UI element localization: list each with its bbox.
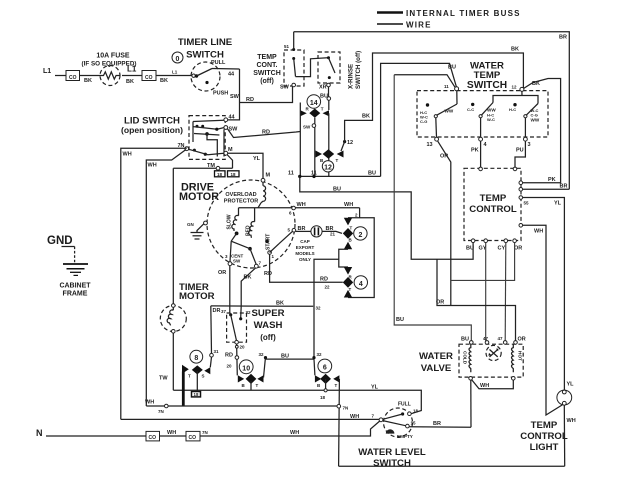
- contact 8 right triangle: [204, 367, 210, 374]
- terminal 37: [229, 313, 232, 316]
- wire BU long vertical to valve: [394, 75, 471, 342]
- contact 12 left triangle: [316, 151, 323, 158]
- svg-text:RD: RD: [225, 353, 233, 359]
- temp control light bulb: [557, 390, 572, 405]
- svg-text:WH: WH: [350, 414, 359, 420]
- switch arm: [292, 57, 295, 60]
- contact 8 left triangle: [182, 365, 189, 374]
- wire L1: [55, 75, 66, 77]
- timer contact 4: [354, 276, 367, 289]
- svg-text:7N: 7N: [202, 430, 208, 435]
- terminals 47 47: [485, 341, 489, 345]
- svg-text:3: 3: [528, 142, 531, 148]
- svg-text:L1: L1: [43, 68, 51, 75]
- terminal SW of lid: [224, 126, 228, 130]
- TIMERLINESW: [172, 37, 293, 120]
- svg-text:OR: OR: [436, 300, 444, 306]
- wire PK: [480, 141, 482, 168]
- svg-text:47: 47: [483, 336, 489, 341]
- wire BU lower bus: [300, 176, 473, 259]
- lid switch arm 1: [196, 125, 199, 128]
- svg-text:PROTECTOR: PROTECTOR: [224, 199, 258, 205]
- water temp switch box: [417, 91, 548, 137]
- svg-text:WASH: WASH: [254, 320, 283, 331]
- MOTOR: [179, 129, 360, 268]
- super wash arm: [231, 315, 237, 341]
- svg-text:FRAME: FRAME: [63, 291, 88, 298]
- wire to x-rinse: [296, 58, 328, 77]
- lid switch arm 2: [193, 149, 196, 152]
- terminal 12: [520, 87, 524, 91]
- start switch: [265, 239, 269, 243]
- svg-text:T: T: [256, 383, 259, 388]
- svg-text:XR: XR: [319, 85, 327, 91]
- svg-text:WH: WH: [145, 399, 154, 405]
- svg-text:BU: BU: [281, 354, 289, 360]
- wire OR from terminal 3: [229, 266, 231, 313]
- svg-text:BU: BU: [461, 337, 469, 343]
- wire arm2 jumper: [493, 96, 538, 104]
- contact 12 diamond: [323, 149, 335, 158]
- svg-text:OR: OR: [518, 337, 526, 343]
- wire 44 vertical: [228, 69, 240, 120]
- contact 10 right triangle: [257, 375, 263, 382]
- legend line INTERNAL TIMER BUSS: [377, 11, 403, 14]
- svg-text:SUPER: SUPER: [251, 308, 284, 319]
- svg-text:OR: OR: [514, 246, 522, 252]
- contact 2 diamond: [343, 228, 353, 239]
- SUPERWASH: [211, 266, 321, 376]
- cabinet ground symbol: [63, 263, 88, 265]
- x-rinse switch box: [318, 52, 340, 83]
- wire TM feed down: [172, 168, 174, 304]
- terminal 11: [455, 87, 459, 91]
- L1FEED: [43, 53, 195, 86]
- svg-text:TIMER LINE: TIMER LINE: [178, 37, 233, 48]
- wire to 13: [435, 118, 438, 138]
- svg-text:T: T: [188, 374, 191, 379]
- svg-text:T: T: [336, 158, 339, 163]
- svg-text:BK: BK: [244, 275, 252, 281]
- wire WH left from 7N: [121, 148, 187, 419]
- timer line switch body: [191, 62, 220, 91]
- svg-text:CABINET: CABINET: [59, 283, 91, 290]
- terminal 15 EMPTY: [406, 424, 410, 428]
- timer motor body: [160, 306, 186, 332]
- switch arm: [327, 56, 330, 59]
- svg-text:10A FUSE: 10A FUSE: [96, 53, 130, 60]
- terminal BU: [470, 341, 474, 345]
- contact 6 diamond: [320, 374, 331, 384]
- valve bottom terminals: [469, 377, 473, 381]
- svg-text:BU: BU: [448, 65, 456, 71]
- wire contact 6 right down: [338, 379, 341, 466]
- svg-text:32: 32: [317, 352, 323, 357]
- svg-text:YL: YL: [371, 385, 379, 391]
- svg-text:W-C: W-C: [487, 117, 495, 122]
- wire BR to capacitor: [296, 230, 311, 232]
- terminal GN ground: [204, 221, 208, 225]
- svg-text:CONTROL: CONTROL: [469, 204, 517, 215]
- wire BU down: [328, 87, 330, 97]
- cent sw: [248, 247, 252, 251]
- svg-text:PK: PK: [471, 148, 479, 154]
- svg-text:SWITCH (off): SWITCH (off): [355, 51, 362, 89]
- svg-text:BK: BK: [511, 47, 519, 53]
- svg-text:RD: RD: [320, 277, 328, 283]
- svg-text:TEMP: TEMP: [480, 193, 507, 204]
- wire YL right: [523, 198, 565, 391]
- wire 32 down to contact 6: [313, 359, 316, 375]
- fuse 10A (IF SO EQUIPPED): [100, 66, 120, 86]
- LEFTBUS: [0, 0, 1, 1]
- svg-text:WH: WH: [480, 383, 489, 389]
- wire WH right: [523, 225, 563, 415]
- svg-text:WH: WH: [567, 418, 576, 424]
- timer motor coil: [167, 307, 173, 325]
- svg-text:YL: YL: [253, 156, 261, 162]
- legend line WIRE: [377, 23, 403, 25]
- wire WH: [160, 435, 187, 437]
- wire 11 down to arm: [456, 91, 458, 104]
- svg-text:COLD: COLD: [463, 351, 468, 365]
- wire 32 drop to super wash: [240, 306, 243, 317]
- wire WH bus: [121, 418, 381, 420]
- connector CO 4: [186, 431, 200, 441]
- contact 2-4 bracket box: [348, 218, 374, 298]
- svg-text:BR: BR: [560, 184, 568, 190]
- lid switch inner links: [205, 132, 209, 136]
- timer contact 14: [307, 95, 321, 109]
- switch 1 pole dot: [426, 103, 429, 106]
- svg-text:31: 31: [214, 349, 220, 354]
- svg-text:WW: WW: [531, 117, 540, 122]
- svg-text:T: T: [321, 107, 324, 112]
- svg-text:(off): (off): [260, 333, 276, 342]
- svg-text:20: 20: [227, 364, 233, 369]
- hot solenoid coil: [512, 344, 514, 372]
- lid switch box: [189, 116, 225, 160]
- svg-text:47: 47: [498, 336, 504, 341]
- slow winding coil: [232, 208, 239, 231]
- TEMPCTRL: [464, 167, 569, 415]
- capacitor 11: [311, 226, 322, 237]
- wire RD lid SW to RD bus: [228, 129, 301, 138]
- svg-text:WH: WH: [148, 163, 157, 169]
- svg-text:BU: BU: [333, 187, 341, 193]
- wire BR to top line: [523, 188, 570, 190]
- connector symbol under 8: [192, 392, 201, 397]
- svg-text:T: T: [349, 287, 352, 292]
- wire light to bottom: [563, 405, 565, 466]
- svg-text:OR: OR: [218, 270, 226, 276]
- svg-text:MOTOR: MOTOR: [179, 291, 215, 302]
- top wire BR: [294, 32, 570, 190]
- wire RD bus vertical: [299, 103, 301, 177]
- svg-text:INTERNAL TIMER BUSS: INTERNAL TIMER BUSS: [406, 9, 521, 18]
- svg-text:CO: CO: [69, 75, 77, 81]
- wire 14 center column: [314, 118, 316, 177]
- svg-text:BU: BU: [368, 171, 376, 177]
- wire right column of 14 down: [328, 113, 330, 176]
- svg-text:22: 22: [325, 284, 331, 289]
- svg-text:CO: CO: [145, 75, 153, 81]
- svg-text:BU: BU: [466, 246, 474, 252]
- C8106: [182, 350, 339, 466]
- C24: [264, 208, 374, 358]
- WLEVEL: [339, 385, 471, 469]
- connector CO 2: [142, 71, 156, 81]
- svg-text:ONLY: ONLY: [299, 257, 311, 262]
- svg-text:N: N: [36, 428, 43, 438]
- connector CO 1: [66, 71, 80, 81]
- wire to 3: [524, 118, 526, 138]
- svg-text:RD: RD: [264, 271, 272, 277]
- svg-text:WH: WH: [297, 202, 306, 208]
- svg-text:RD: RD: [262, 129, 270, 135]
- svg-text:TM: TM: [207, 163, 215, 169]
- svg-text:10: 10: [242, 365, 250, 372]
- svg-text:WH: WH: [123, 152, 132, 158]
- svg-text:18: 18: [217, 172, 223, 177]
- svg-text:MODELS: MODELS: [295, 251, 314, 256]
- timer contact 6: [318, 359, 332, 373]
- terminal SW of 14: [312, 124, 316, 128]
- svg-text:YL: YL: [554, 201, 562, 207]
- svg-text:TW: TW: [159, 376, 168, 382]
- svg-text:EMPTY: EMPTY: [397, 434, 413, 439]
- wire BK up from 12 dot: [345, 53, 524, 142]
- water valve box: [459, 344, 523, 377]
- svg-text:RD: RD: [246, 97, 254, 103]
- svg-text:CONT.: CONT.: [257, 62, 278, 69]
- wire BK: [80, 75, 101, 77]
- top terminals: [479, 167, 483, 171]
- svg-text:CONTROL: CONTROL: [520, 431, 568, 442]
- svg-text:44: 44: [229, 115, 236, 121]
- svg-text:7N: 7N: [158, 409, 164, 414]
- svg-text:4: 4: [359, 281, 363, 288]
- svg-text:37: 37: [221, 309, 227, 314]
- terminal M: [224, 151, 228, 155]
- TIMERMOTOR: [159, 168, 339, 390]
- contact 4 upper triangle: [344, 267, 352, 275]
- wire M to motor YL: [228, 153, 263, 178]
- wire OR to valve: [437, 259, 516, 341]
- timer contact 12: [322, 161, 333, 172]
- contact 2 top triangle: [344, 218, 352, 226]
- mixing valve symbol: [486, 345, 501, 360]
- svg-text:T: T: [335, 383, 338, 388]
- wire TW thick column: [182, 372, 185, 407]
- svg-text:SW: SW: [230, 94, 240, 100]
- terminal 44: [224, 118, 228, 122]
- contact 10 left triangle: [238, 375, 244, 382]
- svg-text:YL: YL: [567, 382, 575, 388]
- wire BR to contact 2: [322, 231, 342, 233]
- red winding coil: [249, 208, 255, 238]
- motor ground symbol: [197, 224, 204, 233]
- temp cont switch box: [284, 50, 304, 86]
- RIGHTWIRES: [436, 243, 516, 342]
- svg-text:SWITCH: SWITCH: [186, 50, 224, 61]
- terminal 32: [239, 317, 242, 320]
- wire BR empty to valve common: [409, 426, 471, 429]
- ground wire: [62, 246, 75, 248]
- wire 12 to jumper: [521, 91, 523, 95]
- svg-text:SW: SW: [280, 85, 290, 91]
- svg-text:11: 11: [444, 84, 449, 89]
- wire RD 22 to contact 4: [270, 254, 343, 282]
- wire WH 2 from 7N: [146, 150, 186, 407]
- terminal XR: [327, 83, 331, 87]
- contact 8 diamond: [192, 365, 203, 374]
- contact 4 bottom triangle: [344, 290, 352, 298]
- svg-text:6: 6: [323, 365, 327, 372]
- svg-text:S: S: [202, 374, 205, 379]
- switch 1 arm: [434, 115, 437, 118]
- svg-text:DR: DR: [213, 308, 221, 314]
- wire bracket to 32 column: [314, 259, 339, 357]
- wire bus to water temp 11: [394, 75, 455, 88]
- wire BK from terminal 7: [241, 268, 255, 306]
- connector CO 3: [146, 431, 160, 441]
- svg-text:C-C: C-C: [467, 107, 474, 112]
- timer contact 0: [172, 52, 183, 63]
- WTEMPSW: [417, 61, 561, 306]
- wire to 44: [212, 68, 240, 71]
- svg-text:32: 32: [246, 310, 252, 315]
- svg-text:H-C: H-C: [509, 107, 516, 112]
- TCLIGHT: [520, 382, 575, 467]
- svg-text:14: 14: [310, 100, 318, 107]
- terminal SW: [292, 83, 296, 87]
- svg-text:SWITCH: SWITCH: [467, 80, 507, 91]
- pressure dome symbol: [386, 429, 395, 433]
- svg-text:WATER LEVEL: WATER LEVEL: [358, 447, 426, 458]
- wire BU between 32 terminals: [266, 358, 315, 360]
- VALVE: [419, 336, 526, 427]
- svg-text:GN: GN: [187, 222, 194, 227]
- switch 2 pole dot: [471, 103, 474, 106]
- terminal 20: [235, 340, 239, 344]
- wire OR from 13: [438, 141, 451, 306]
- wire N to water level: [200, 420, 381, 436]
- svg-text:PULL: PULL: [211, 60, 226, 66]
- svg-text:(off): (off): [260, 78, 274, 85]
- svg-text:CO: CO: [149, 435, 157, 441]
- super wash box: [227, 313, 247, 342]
- svg-text:11: 11: [288, 171, 294, 177]
- svg-text:7N: 7N: [343, 405, 349, 410]
- svg-text:CO: CO: [189, 435, 197, 441]
- svg-text:VALVE: VALVE: [421, 363, 452, 374]
- wire GY down to valve: [485, 243, 487, 342]
- svg-text:PU: PU: [516, 148, 524, 154]
- svg-text:L1: L1: [172, 70, 178, 75]
- svg-text:BK: BK: [160, 78, 168, 84]
- terminal 31: [210, 353, 214, 357]
- svg-text:32: 32: [259, 352, 265, 357]
- svg-text:0: 0: [176, 56, 180, 63]
- svg-text:TEMP: TEMP: [531, 420, 558, 431]
- svg-text:18: 18: [320, 395, 326, 400]
- svg-text:SW: SW: [303, 124, 311, 129]
- switch 2 arm: [479, 115, 482, 118]
- switch arm: [197, 69, 213, 77]
- svg-text:WH: WH: [344, 202, 353, 208]
- LEGEND: [377, 9, 521, 30]
- wire 32 up from contact 10: [264, 359, 266, 377]
- switch 3 arm: [524, 115, 527, 118]
- contact 6 right triangle: [333, 375, 339, 382]
- switch input terminal: [192, 74, 195, 77]
- svg-text:L1: L1: [127, 65, 137, 74]
- svg-text:BK: BK: [84, 78, 92, 84]
- svg-text:11: 11: [311, 171, 317, 177]
- timer contact 2: [354, 227, 367, 240]
- svg-text:BR: BR: [433, 421, 441, 427]
- svg-text:BK: BK: [126, 79, 134, 85]
- cold solenoid coil: [469, 344, 471, 372]
- svg-text:M: M: [266, 173, 271, 179]
- bottom terminals: [471, 239, 475, 243]
- wire valve common down to BR: [470, 380, 472, 427]
- GND: [47, 235, 91, 298]
- wire BU up right: [381, 63, 457, 176]
- svg-text:44: 44: [228, 72, 235, 78]
- terminal 7: [250, 249, 256, 265]
- wire contact 6 center down: [325, 379, 327, 389]
- svg-text:BK: BK: [532, 81, 540, 87]
- svg-text:CAP: CAP: [300, 239, 310, 244]
- contact 14 R triangle: [300, 110, 307, 116]
- svg-text:WW: WW: [445, 109, 454, 114]
- svg-text:WH: WH: [534, 229, 543, 235]
- contact 2 lower triangle: [344, 242, 352, 250]
- terminal M of motor: [261, 178, 265, 182]
- contact 12 right triangle: [337, 151, 344, 158]
- wire BK from 12: [521, 79, 561, 183]
- svg-text:12: 12: [324, 165, 332, 172]
- svg-text:SWITCH: SWITCH: [373, 458, 411, 469]
- svg-text:WATER: WATER: [419, 351, 453, 362]
- svg-text:BK: BK: [362, 114, 370, 120]
- svg-text:CY: CY: [498, 246, 506, 252]
- lid M arm hook to TM line: [227, 155, 233, 169]
- svg-text:T: T: [350, 226, 353, 231]
- svg-text:OVERLOAD: OVERLOAD: [225, 192, 256, 198]
- BOTTOM: [36, 399, 565, 466]
- svg-text:LIGHT: LIGHT: [530, 442, 559, 453]
- svg-text:BK: BK: [276, 301, 284, 307]
- svg-text:M: M: [228, 147, 233, 153]
- svg-text:WH: WH: [167, 430, 176, 436]
- wire DR to 31: [210, 306, 213, 354]
- wire BR up to top line: [293, 32, 295, 50]
- wire 44 inside: [193, 120, 224, 121]
- svg-text:55: 55: [524, 201, 530, 206]
- svg-text:X-RINSE: X-RINSE: [348, 64, 355, 89]
- switch 3 pole dot: [513, 103, 516, 106]
- svg-text:OR: OR: [440, 154, 448, 160]
- svg-text:12: 12: [512, 84, 518, 89]
- wire BK to 32 column: [211, 305, 313, 307]
- wire WH down to contact 2: [359, 208, 361, 218]
- terminal 12 dot: [343, 140, 346, 143]
- pivot 7: [379, 418, 383, 422]
- svg-text:BR: BR: [559, 35, 567, 41]
